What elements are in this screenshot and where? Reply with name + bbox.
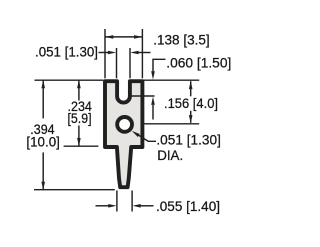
dim line .394 [42,81,44,190]
ext line hole-center level [142,123,199,125]
svg-text:DIA.: DIA. [157,147,183,163]
ext line slot left [116,48,118,78]
dim line .138 [105,36,142,38]
arrow .234 up [77,80,81,88]
svg-text:.138 [3.5]: .138 [3.5] [153,32,210,48]
leader .060 [153,59,166,72]
shaft .060 lower [152,105,154,120]
terminal body outline [105,81,142,187]
ext line tail left [116,191,118,212]
arrow .138 left [105,35,113,39]
arrow .156 up [189,81,193,89]
svg-text:[10.0]: [10.0] [26,133,60,149]
hole [117,117,132,132]
svg-text:.156 [4.0]: .156 [4.0] [164,95,218,111]
ext line slot-bottom level [128,95,154,97]
ext line slot right [129,48,131,78]
ext line .138 left [104,29,106,78]
ext line top-left [35,79,104,81]
dim line .234 [78,81,80,146]
arrow .394 up [41,80,45,88]
dim line .051 slot right shaft [138,52,151,54]
svg-text:.051 [1.30]: .051 [1.30] [35,43,98,59]
arrow .394 down [41,182,45,190]
dim line .156 upper [190,81,192,96]
ext line .138 right [141,29,143,78]
arrow .156 down [189,115,193,123]
dim line .055 right shaft [140,205,154,207]
arrow hole dia leader [132,131,140,137]
dim line .051 slot left shaft [99,52,109,54]
arrow .055 left [108,204,116,208]
dim line .055 left shaft [96,205,110,207]
arrow .055 right [132,204,140,208]
arrow .051 slot left [108,51,116,55]
svg-text:.060 [1.50]: .060 [1.50] [166,54,231,70]
arrow .060 down [151,71,155,79]
ext line tail right [131,191,133,212]
ext line top-right [144,79,200,81]
ext line bottom tip [34,189,115,191]
dim line .156 lower [190,111,192,123]
svg-text:[5.9]: [5.9] [68,110,92,126]
arrow .234 down [77,138,81,146]
arrow .051 slot right [130,51,138,55]
svg-text:.051 [1.30]: .051 [1.30] [156,131,221,147]
arrow .060 up [151,97,155,105]
ext line shoulder left [64,145,99,147]
arrow .138 right [134,35,142,39]
leader hole dia [137,134,157,141]
svg-text:.055 [1.40]: .055 [1.40] [156,198,220,214]
